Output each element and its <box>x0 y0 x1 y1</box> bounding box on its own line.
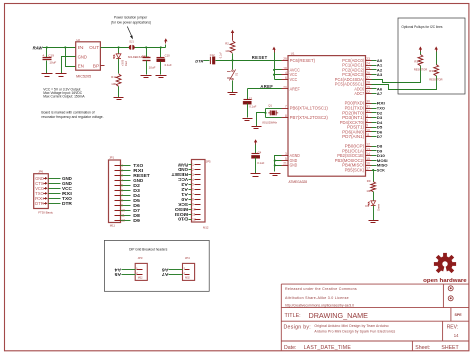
svg-text:BP: BP <box>93 64 100 69</box>
svg-text:DRAWING_NAME: DRAWING_NAME <box>309 311 369 320</box>
svg-text:10K: 10K <box>225 49 230 53</box>
svg-text:10: 10 <box>192 207 196 211</box>
svg-text:A3: A3 <box>180 182 188 187</box>
svg-text:M02: M02 <box>138 276 143 279</box>
svg-text:DIP Grid Breakout headers: DIP Grid Breakout headers <box>129 248 168 252</box>
svg-text:7: 7 <box>285 105 287 109</box>
pin 4 JP1 GND <box>115 178 144 183</box>
svg-text:0.1uF: 0.1uF <box>219 52 222 59</box>
svg-text:Released under the Creative Co: Released under the Creative Commons <box>285 287 357 291</box>
svg-text:3: 3 <box>192 173 194 177</box>
solder jumper SJ1 <box>128 39 149 58</box>
pin 6 JP1 D3 <box>115 188 141 193</box>
wire net RXI <box>372 101 385 106</box>
ground under C19 <box>42 74 53 77</box>
svg-text:RESISTOR: RESISTOR <box>414 68 427 72</box>
wire SCK to LED chain <box>372 169 375 181</box>
svg-text:+3V3: +3V3 <box>121 59 125 66</box>
pin 1 JP4 A6 <box>161 267 190 272</box>
svg-text:JP1: JP1 <box>109 155 114 159</box>
pin 21 GND <box>282 162 298 168</box>
resistor R1 4.7K <box>414 46 427 71</box>
svg-text:Power isolation jumper: Power isolation jumper <box>114 16 148 20</box>
svg-text:14: 14 <box>366 152 370 156</box>
pin 31 PD1(TXD) <box>345 105 372 111</box>
pin 5 JP1 D2 <box>115 183 141 188</box>
svg-text:11: 11 <box>121 214 125 218</box>
svg-text:(for low power applications): (for low power applications) <box>111 21 151 25</box>
svg-text:16: 16 <box>366 162 370 166</box>
resistor R3 4.7K <box>429 46 442 81</box>
capacitor C12 0.1uF (DTR series) <box>204 52 233 65</box>
svg-text:Attribution Share-Alike 3.0 Li: Attribution Share-Alike 3.0 License <box>285 296 349 300</box>
svg-text:MOSI: MOSI <box>175 212 188 217</box>
ground under regulator <box>56 74 67 77</box>
connector JP3 (A4 A5) <box>135 256 147 280</box>
svg-text:RAW: RAW <box>178 162 188 167</box>
svg-text:5: 5 <box>285 157 287 161</box>
svg-text:D3: D3 <box>365 204 369 208</box>
svg-text:RESISTOR: RESISTOR <box>429 78 442 82</box>
wire SDA (A4) to R1 <box>372 66 421 83</box>
resistor R2 10K (reset pullup) <box>225 41 235 61</box>
voltage regulator U2 MIC5205 <box>76 38 105 79</box>
svg-text:10uF: 10uF <box>49 61 56 65</box>
svg-text:RESET: RESET <box>252 55 268 60</box>
ground under R11 <box>114 98 124 100</box>
svg-text:2: 2 <box>121 169 123 173</box>
svg-text:10K: 10K <box>111 82 116 86</box>
box DIP grid breakout <box>104 240 209 291</box>
pin 4 JP2 VCC <box>178 177 200 182</box>
svg-text:26: 26 <box>366 71 370 75</box>
pin 1 JP1 TXO <box>115 163 145 168</box>
pin 25 PC2(ADC2) <box>342 66 371 72</box>
pin 13 PB1(OC1A) <box>342 147 371 153</box>
svg-text:SOLDERJUMPER: SOLDERJUMPER <box>128 55 149 59</box>
pin 23 PC0(ADC0) <box>342 57 371 63</box>
wire net D6 <box>372 129 384 134</box>
svg-text:21: 21 <box>283 162 287 166</box>
svg-text:A7: A7 <box>161 272 169 277</box>
svg-text:11: 11 <box>192 212 196 216</box>
svg-text:8: 8 <box>285 114 287 118</box>
svg-text:C19: C19 <box>48 54 54 58</box>
wire net D5 <box>372 125 384 130</box>
pin 4 JP6 TXO <box>35 191 72 196</box>
wire net A2 <box>372 67 384 72</box>
svg-text:OUT: OUT <box>89 45 99 50</box>
ground under D3 <box>369 221 379 223</box>
svg-text:1: 1 <box>121 164 123 168</box>
LED D1 power (red) <box>113 48 128 74</box>
pin 6 JP6 DTR <box>35 201 72 206</box>
pin 12 JP1 D9 <box>115 218 141 223</box>
svg-text:C1: C1 <box>249 96 253 100</box>
svg-text:19: 19 <box>366 85 370 89</box>
svg-text:R3: R3 <box>429 69 433 73</box>
svg-text:2: 2 <box>192 168 194 172</box>
svg-text:Original Arduino Mini Design b: Original Arduino Mini Design by Team Ard… <box>314 324 388 328</box>
wire ground bus AGND/GND <box>274 156 282 172</box>
svg-text:4: 4 <box>192 178 194 182</box>
svg-text:JP4: JP4 <box>185 256 190 260</box>
pin 3 JP6 VCC <box>35 186 72 191</box>
svg-text:A5: A5 <box>114 272 122 277</box>
design row <box>284 324 460 338</box>
pin 10 PD6(AIN0) <box>342 128 371 134</box>
svg-text:9: 9 <box>192 203 194 207</box>
pin 1 PD3(INT1) <box>342 114 371 120</box>
svg-text:PB6(XTAL1TOSC1): PB6(XTAL1TOSC1) <box>290 106 329 111</box>
pin 3 AGND <box>282 152 300 158</box>
pin 12 JP2 D10 <box>177 217 200 222</box>
svg-text:A3: A3 <box>377 72 383 77</box>
resistor R9 10K (SCK LED) <box>366 179 375 200</box>
svg-text:9: 9 <box>366 124 368 128</box>
svg-text:Green: Green <box>377 203 381 211</box>
svg-text:R2: R2 <box>225 41 229 45</box>
svg-text:9: 9 <box>121 204 123 208</box>
svg-text:D7: D7 <box>377 134 383 139</box>
svg-text:Design by:: Design by: <box>284 325 312 331</box>
title row <box>285 311 463 320</box>
capacitor C19 10uF <box>42 48 56 74</box>
pin 9 JP2 SCK <box>178 202 200 207</box>
pin 7 PB6(XTAL1TOSC1) <box>282 105 329 111</box>
svg-text:REV:: REV: <box>447 325 458 331</box>
svg-text:SHEET: SHEET <box>441 345 459 351</box>
pin 3 JP1 RESET <box>115 173 151 178</box>
svg-text:DTR: DTR <box>62 201 72 206</box>
svg-text:A2: A2 <box>180 187 188 192</box>
pin 8 PB7(XTAL2TOSC2) <box>282 114 329 120</box>
wire net SCK <box>372 168 385 173</box>
pin 2 JP4 A7 <box>161 272 190 277</box>
svg-text:8: 8 <box>192 198 194 202</box>
pin 2 PD4(XCKT0) <box>340 119 372 125</box>
box optional pullups <box>398 18 465 94</box>
pin 10 JP1 D7 <box>115 208 141 213</box>
svg-text:12: 12 <box>192 217 196 221</box>
svg-text:28: 28 <box>366 81 370 85</box>
svg-text:S1: S1 <box>235 72 239 76</box>
svg-text:Date:: Date: <box>284 345 296 351</box>
wire SCL (A5) to R3 <box>372 76 437 90</box>
date row <box>284 345 460 351</box>
svg-text:10K: 10K <box>366 189 371 193</box>
wire RESET net <box>231 55 281 61</box>
svg-text:10: 10 <box>366 128 370 132</box>
connector JP2 <box>192 160 212 230</box>
svg-text:ATMEGA328: ATMEGA328 <box>289 180 308 184</box>
svg-text:RAW: RAW <box>33 45 44 50</box>
svg-text:3: 3 <box>121 174 123 178</box>
svg-text:0.1uF: 0.1uF <box>257 161 264 165</box>
wire net D8 <box>372 144 384 149</box>
node RAW <box>33 45 44 50</box>
svg-text:A7: A7 <box>377 91 383 96</box>
pin 29 PC6(RESET) <box>282 57 316 63</box>
svg-text:PB5(SCK): PB5(SCK) <box>345 168 365 173</box>
svg-text:12: 12 <box>121 218 125 222</box>
pin 20 AREF <box>282 85 301 91</box>
pin 16 PB4(MISO) <box>342 162 371 168</box>
svg-text:VCC: VCC <box>290 77 298 82</box>
resonator Q1 <box>257 104 282 127</box>
pin 27 PC4(ADC4SDA) <box>335 76 372 82</box>
svg-text:FTDI Basic: FTDI Basic <box>38 211 53 215</box>
svg-text:http://creativecommons.org/lic: http://creativecommons.org/licenses/by-s… <box>285 303 354 307</box>
svg-text:AREF: AREF <box>290 86 301 91</box>
svg-text:4: 4 <box>121 179 123 183</box>
pin 11 PD7(AIN1) <box>342 133 371 139</box>
svg-text:Red: Red <box>124 61 128 66</box>
svg-text:A1: A1 <box>180 192 188 197</box>
svg-text:U2: U2 <box>76 38 80 42</box>
svg-text:0.1uF: 0.1uF <box>165 63 172 67</box>
wire net D4 <box>372 120 384 125</box>
svg-text:C4: C4 <box>258 150 262 154</box>
svg-text:32: 32 <box>366 109 370 113</box>
VCC arrow on output rail <box>164 38 167 47</box>
annotation power isolation jumper <box>111 16 151 40</box>
wire VCC output rail <box>101 46 166 48</box>
license text <box>285 287 357 307</box>
svg-text:10uF: 10uF <box>149 65 156 69</box>
svg-text:A0: A0 <box>180 197 188 202</box>
VCC bus for AVCC/VCC pins <box>272 47 281 80</box>
svg-text:JP6: JP6 <box>38 170 43 174</box>
pin 8 JP2 A0 <box>180 197 200 202</box>
svg-text:0.1uF: 0.1uF <box>249 104 256 108</box>
switch S1 reset button <box>227 61 239 93</box>
IC U1 ATMEGA328 <box>288 52 366 184</box>
svg-text:AREF: AREF <box>260 84 273 89</box>
ground under C2 <box>141 76 152 78</box>
svg-text:1: 1 <box>366 114 368 118</box>
pin 7 JP2 A1 <box>180 192 200 197</box>
svg-text:R1: R1 <box>414 59 418 63</box>
pin 5 JP2 A3 <box>180 182 200 187</box>
svg-text:4: 4 <box>285 71 287 75</box>
ground under C1 <box>243 119 253 121</box>
svg-text:13: 13 <box>366 147 370 151</box>
svg-text:Optional Pullups for I2C lines: Optional Pullups for I2C lines <box>401 25 443 29</box>
svg-text:C12: C12 <box>210 53 215 57</box>
svg-text:MIC5205: MIC5205 <box>76 74 91 78</box>
pin 2 JP6 CTS <box>35 181 72 186</box>
pin 5 GND <box>282 157 298 163</box>
svg-text:5: 5 <box>192 183 194 187</box>
svg-text:2: 2 <box>366 119 368 123</box>
pin 2 JP2 GND <box>178 167 200 172</box>
svg-text:6: 6 <box>285 76 287 80</box>
svg-text:31: 31 <box>366 105 370 109</box>
svg-text:7: 7 <box>121 194 123 198</box>
wire net MISO <box>372 163 388 168</box>
wire net D9 <box>372 148 384 153</box>
wire net D7 <box>372 134 384 139</box>
pin 17 PB5(SCK) <box>345 167 372 173</box>
svg-text:17: 17 <box>366 167 370 171</box>
pin 3 JP2 RESET <box>171 172 201 177</box>
svg-text:15: 15 <box>366 157 370 161</box>
wire net D3 <box>372 115 384 120</box>
VCC arrow above R2 <box>231 30 234 41</box>
pin 5 JP6 RXI <box>35 196 73 201</box>
pin 26 PC3(ADC3) <box>342 71 371 77</box>
svg-text:11: 11 <box>366 133 370 137</box>
svg-text:8: 8 <box>121 199 123 203</box>
svg-text:R9: R9 <box>367 179 371 183</box>
connector JP6 FTDI Basic <box>34 170 54 215</box>
svg-text:18: 18 <box>283 66 287 70</box>
svg-text:Sheet:: Sheet: <box>415 345 430 351</box>
pin 14 PB2(SSOC1B) <box>337 152 371 158</box>
pin 2 JP1 RXI <box>115 168 144 173</box>
svg-text:U1: U1 <box>291 52 295 56</box>
svg-text:29: 29 <box>283 57 287 61</box>
pin 30 PD0(RXD) <box>345 100 372 106</box>
wire RAW input <box>43 46 76 48</box>
svg-text:1: 1 <box>192 163 194 167</box>
svg-text:27: 27 <box>366 76 370 80</box>
svg-text:SCK: SCK <box>377 168 385 173</box>
svg-text:EN: EN <box>78 64 84 69</box>
wire net A3 <box>372 72 384 77</box>
svg-text:D9: D9 <box>133 218 141 223</box>
svg-text:DTR: DTR <box>35 201 44 206</box>
svg-text:20: 20 <box>283 85 287 89</box>
svg-text:5: 5 <box>121 184 123 188</box>
ground under resonator <box>252 127 262 129</box>
ground under GND bus <box>270 174 281 176</box>
pin 1 JP3 A4 <box>114 267 143 272</box>
pin 8 JP1 D5 <box>115 198 141 203</box>
svg-text:12: 12 <box>366 143 370 147</box>
LED D3 green <box>365 201 380 221</box>
svg-text:C10: C10 <box>165 54 171 58</box>
svg-text:M11: M11 <box>110 223 116 227</box>
pin 11 JP1 D8 <box>115 213 141 218</box>
svg-text:JP5: JP5 <box>206 160 211 164</box>
svg-text:ADC7: ADC7 <box>354 91 364 96</box>
svg-text:Arduino Pro Mini Design by Spa: Arduino Pro Mini Design by Spark Fun Ele… <box>314 329 395 333</box>
svg-text:LAST_DATE_TIME: LAST_DATE_TIME <box>304 345 352 351</box>
wire regulator GND to ground <box>62 57 76 74</box>
svg-text:open hardware: open hardware <box>423 278 467 284</box>
svg-text:SJ1: SJ1 <box>129 39 134 43</box>
svg-text:D10: D10 <box>177 217 188 222</box>
wire EN tie to IN <box>66 48 76 67</box>
svg-text:7: 7 <box>192 193 194 197</box>
svg-text:TITLE:: TITLE: <box>285 313 301 319</box>
capacitor C1 0.1uF (AREF) <box>243 89 257 118</box>
pin 22 ADC7 <box>354 90 371 96</box>
pin 12 PB0(ICP) <box>345 143 372 149</box>
svg-text:A6: A6 <box>161 267 169 272</box>
wire AREF net <box>248 84 282 89</box>
note regulator specs <box>43 87 85 98</box>
pin 7 JP1 D4 <box>115 193 141 198</box>
svg-text:GND: GND <box>178 167 188 172</box>
wire net A0 <box>372 58 384 63</box>
svg-text:30: 30 <box>366 100 370 104</box>
pin 9 JP1 D6 <box>115 203 141 208</box>
svg-text:resonator frequency and regula: resonator frequency and regulator voltag… <box>41 115 103 119</box>
pin 1 JP6 GND <box>35 176 72 181</box>
wire net A1 <box>372 63 384 68</box>
svg-text:GND: GND <box>78 54 87 59</box>
svg-text:PB7(XTAL2TOSC2): PB7(XTAL2TOSC2) <box>290 115 329 120</box>
ground under C10 <box>156 76 167 78</box>
svg-text:VCC: VCC <box>178 177 188 182</box>
svg-text:A4: A4 <box>114 267 122 272</box>
pin 18 AVCC <box>282 66 300 72</box>
svg-text:SCK: SCK <box>178 202 188 207</box>
capacitor C2 10uF <box>142 48 156 75</box>
note board marking <box>41 110 103 119</box>
svg-text:PD7(AIN1): PD7(AIN1) <box>342 134 365 139</box>
svg-text:14: 14 <box>454 333 459 338</box>
capacitor C4 0.1uF decoupling <box>252 139 265 173</box>
svg-text:8GL020MHz: 8GL020MHz <box>262 120 277 124</box>
svg-text:Board is marked with combinati: Board is marked with combination of <box>41 110 94 114</box>
CC icon SA <box>448 296 453 301</box>
svg-text:M12: M12 <box>203 226 209 230</box>
pin 32 PD2(INT0) <box>342 109 371 115</box>
svg-text:6: 6 <box>192 188 194 192</box>
node DTR <box>195 58 203 63</box>
svg-text:R11: R11 <box>111 75 116 79</box>
svg-text:DTR: DTR <box>195 58 203 63</box>
svg-text:10: 10 <box>121 209 125 213</box>
svg-text:25: 25 <box>366 66 370 70</box>
wire net D2 <box>372 110 384 115</box>
svg-text:M02: M02 <box>185 276 190 279</box>
capacitor C10 0.1uF <box>157 48 173 75</box>
svg-text:3: 3 <box>285 152 287 156</box>
connector JP4 (A6 A7) <box>183 256 195 280</box>
svg-text:JP3: JP3 <box>138 256 143 260</box>
open hardware logo <box>423 253 467 284</box>
wire net TXO <box>372 106 385 111</box>
pin 1 JP2 RAW <box>178 162 201 167</box>
svg-text:IN: IN <box>78 45 84 50</box>
svg-text:24: 24 <box>366 62 370 66</box>
pin 6 JP2 A2 <box>180 187 200 192</box>
pin 24 PC1(ADC1) <box>342 62 371 68</box>
svg-text:MISO: MISO <box>174 207 188 212</box>
pin 15 PB3(MOSIOC2) <box>335 157 372 163</box>
pin 28 PC5(ADC5SCL) <box>335 81 372 87</box>
pin 2 JP3 A5 <box>114 272 143 277</box>
pin 19 ADC6 <box>354 85 371 91</box>
svg-text:RESET: RESET <box>171 172 188 177</box>
pin 6 VCC <box>282 76 298 82</box>
svg-text:SPE: SPE <box>455 313 463 317</box>
connector JP1 <box>109 155 121 227</box>
svg-text:C2: C2 <box>142 54 146 58</box>
pin 4 VCC <box>282 71 298 77</box>
wire net A7 <box>372 91 384 96</box>
pin 11 JP2 MOSI <box>175 212 201 217</box>
ground under C4 <box>251 174 261 177</box>
svg-text:PC6(RESET): PC6(RESET) <box>290 58 316 63</box>
wire net A6 <box>372 86 384 91</box>
wire net MOSI <box>372 158 388 163</box>
